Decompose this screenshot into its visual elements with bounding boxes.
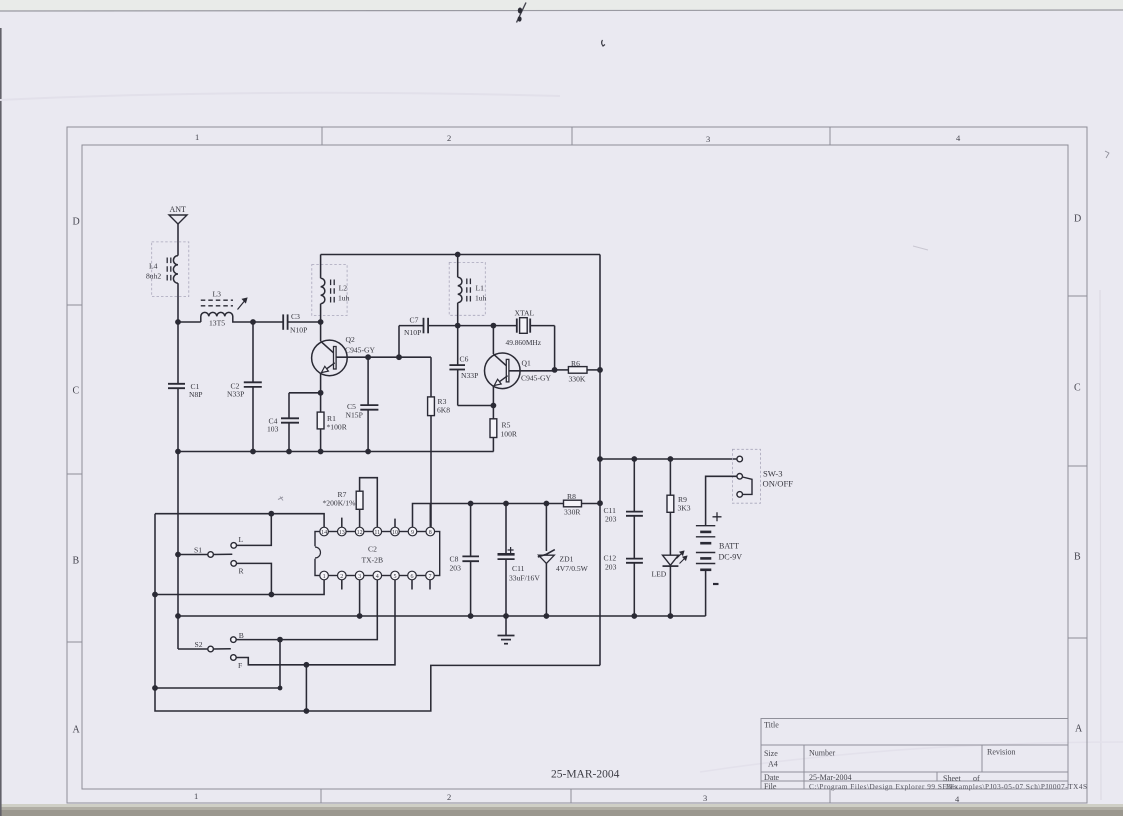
- svg-text:330K: 330K: [569, 375, 586, 384]
- wire: pin8 connection via R3 column (R3 line continues, crossing): [429, 504, 431, 528]
- wire: top rail L2 to right rail: [321, 254, 600, 256]
- svg-text:R5: R5: [502, 421, 511, 430]
- svg-text:S1: S1: [194, 546, 202, 555]
- svg-text:12: 12: [357, 530, 363, 536]
- capacitor C11 electrolytic 33uF: [498, 504, 541, 617]
- inductor L1: [449, 255, 486, 326]
- node: Q2 emitter junction: [318, 390, 324, 396]
- diode LED: [652, 551, 687, 616]
- svg-text:L1: L1: [476, 284, 485, 293]
- svg-text:N15P: N15P: [346, 411, 363, 420]
- svg-text:L: L: [239, 535, 244, 544]
- wire: upper ground rail: [178, 451, 494, 453]
- svg-text:*100R: *100R: [327, 423, 348, 432]
- node: pin14 net/L branch: [268, 511, 274, 517]
- svg-text:N33P: N33P: [227, 390, 244, 399]
- svg-text:49.860MHz: 49.860MHz: [506, 338, 542, 347]
- node: line A/R wire: [152, 592, 158, 598]
- sheet inner border: [82, 145, 1068, 789]
- node: B branch junction: [277, 637, 283, 643]
- pin 13 stub: [341, 518, 343, 528]
- capacitor C11: [604, 459, 643, 558]
- wire: B branch down to bottom link: [155, 640, 280, 688]
- node: rail/C8: [468, 613, 474, 619]
- svg-text:25-Mar-2004: 25-Mar-2004: [809, 773, 852, 782]
- svg-text:14: 14: [321, 530, 327, 536]
- svg-text:C8: C8: [450, 555, 459, 564]
- inductor L4: [146, 242, 189, 297]
- svg-text:C3: C3: [291, 312, 300, 321]
- pin 6 stub: [411, 580, 413, 590]
- faint mark right margin: [1105, 151, 1109, 158]
- svg-text:of: of: [973, 774, 980, 783]
- faint crease top left: [0, 93, 560, 100]
- svg-text:N33P: N33P: [461, 371, 478, 380]
- svg-text:ZD1: ZD1: [560, 555, 574, 564]
- svg-text:C7: C7: [410, 316, 419, 325]
- node: rail/LED: [668, 613, 674, 619]
- svg-text:BATT: BATT: [719, 542, 739, 551]
- node: net/C11 electrolytic: [503, 501, 509, 507]
- svg-text:Bes: Bes: [946, 783, 957, 791]
- node: rail/ZD1: [544, 613, 550, 619]
- right zone tick C-B: [1068, 465, 1087, 467]
- svg-text:33uF/16V: 33uF/16V: [509, 574, 540, 583]
- wire: bottom rail: [178, 615, 706, 617]
- svg-text:TX-2B: TX-2B: [362, 556, 384, 565]
- faint scratch mid right: [913, 246, 928, 250]
- svg-text:F: F: [238, 661, 242, 670]
- node: rail/power branch: [597, 456, 603, 462]
- svg-text:3K3: 3K3: [678, 504, 691, 513]
- pin 2 stub: [341, 580, 343, 590]
- node: B link corner dot: [278, 686, 283, 691]
- svg-text:R6: R6: [571, 359, 580, 368]
- svg-text:25-MAR-2004: 25-MAR-2004: [551, 769, 620, 781]
- svg-text:SW-3: SW-3: [763, 468, 783, 478]
- svg-text:N8P: N8P: [189, 390, 203, 399]
- node: rail/R8: [597, 500, 603, 506]
- svg-text:1: 1: [194, 791, 198, 801]
- wire: S2 B contact to pin4: [236, 580, 377, 640]
- pin 7 stub: [429, 580, 431, 590]
- capacitor C2: [227, 322, 262, 452]
- node: rail/C11 electrolytic: [503, 613, 509, 619]
- wire: feed to S2 pivot: [178, 648, 208, 650]
- svg-text:C12: C12: [604, 554, 617, 563]
- svg-text:330R: 330R: [564, 508, 581, 517]
- svg-text:A4: A4: [768, 760, 778, 769]
- svg-text:L2: L2: [339, 284, 348, 293]
- wire: right rail: [599, 255, 601, 666]
- svg-text:2: 2: [447, 792, 451, 802]
- node: rail/R1: [318, 449, 324, 455]
- svg-text:Sheet: Sheet: [943, 774, 962, 783]
- svg-text:1: 1: [195, 132, 199, 142]
- resistor R3: [428, 357, 451, 527]
- resistor R7: [323, 478, 378, 528]
- ground symbol: [498, 616, 515, 644]
- node: rail/R6: [597, 367, 603, 373]
- antenna ANT: [169, 205, 187, 322]
- title block box: [761, 719, 1068, 790]
- node: F branch junction: [304, 662, 310, 668]
- svg-text:3: 3: [706, 134, 710, 144]
- faint vertical crease right margin: [1100, 290, 1101, 800]
- svg-text:Revision: Revision: [987, 748, 1015, 757]
- switch S2: [195, 631, 244, 670]
- ink speck: [602, 40, 605, 46]
- left zone tick D-C: [67, 304, 82, 306]
- node: power/R9: [668, 456, 674, 462]
- svg-text:C945-GY: C945-GY: [345, 346, 375, 355]
- wire: Q1 base to R6: [509, 370, 555, 372]
- top zone tick 1-2: [321, 127, 323, 145]
- inductor L2: [312, 255, 350, 323]
- node: net/C8: [468, 501, 474, 507]
- left zone tick B-A: [67, 641, 82, 643]
- svg-text:Q1: Q1: [522, 359, 531, 368]
- svg-text:Size: Size: [764, 749, 778, 758]
- battery BATT DC-9V: [696, 512, 742, 616]
- svg-text:*200K/1%: *200K/1%: [323, 499, 357, 508]
- svg-text:203: 203: [605, 563, 617, 572]
- node: rail/C5: [365, 449, 371, 455]
- resistor R9: [667, 459, 691, 555]
- svg-text:11: 11: [374, 530, 380, 536]
- svg-text:203: 203: [605, 515, 617, 524]
- right zone tick D-C: [1068, 295, 1087, 297]
- svg-text:ON/OFF: ON/OFF: [763, 478, 794, 488]
- faint pencil mark near S1 wiring: [278, 497, 283, 501]
- bottom scan edge band: [0, 805, 1123, 816]
- resistor R8: [546, 492, 600, 517]
- svg-text:103: 103: [267, 425, 279, 434]
- node: C3/L2/Q2 junction: [318, 319, 324, 325]
- switch SW-3 ON/OFF: [732, 449, 793, 503]
- svg-text:6K8: 6K8: [437, 406, 450, 415]
- svg-text:1: 1: [323, 574, 326, 580]
- svg-text:C6: C6: [460, 355, 469, 364]
- node: Q1 emitter/C6 junction: [491, 403, 497, 409]
- node: pin1 net/R branch: [269, 592, 275, 598]
- capacitor C5: [346, 357, 379, 451]
- bottom zone tick 2-3: [570, 789, 572, 803]
- node: net/ZD1/R8: [544, 501, 550, 507]
- capacitor C8: [450, 504, 480, 617]
- bottom zone tick 1-2: [320, 789, 322, 803]
- svg-text:2: 2: [340, 574, 343, 580]
- wire: SW-3 to battery: [706, 476, 737, 525]
- svg-text:N10P: N10P: [404, 328, 421, 337]
- wire: left vertical line A with bottom run: [155, 514, 600, 711]
- node: L3/C3 junction: [250, 319, 256, 325]
- svg-text:DC-9V: DC-9V: [719, 553, 743, 562]
- svg-text:4: 4: [376, 574, 379, 580]
- svg-text:10: 10: [392, 530, 398, 536]
- capacitor C3: [253, 312, 321, 335]
- svg-text:S2: S2: [195, 640, 203, 649]
- wire: pin9/pin8 top net to R8: [413, 504, 547, 528]
- svg-text:C11: C11: [512, 564, 525, 573]
- transistor Q1 C945-GY: [485, 326, 552, 406]
- node: bottom link on line A: [152, 685, 158, 691]
- node: base/C7 junction: [396, 354, 402, 360]
- svg-text:100R: 100R: [501, 430, 518, 439]
- capacitor C12: [604, 554, 643, 617]
- node: rail/C2: [250, 449, 256, 455]
- svg-text:3: 3: [358, 574, 361, 580]
- pen scribble top edge: [517, 3, 527, 23]
- svg-text:L3: L3: [213, 290, 222, 299]
- wire: Q2 base: [336, 356, 431, 358]
- node: base/C5 junction: [365, 354, 371, 360]
- node: rail/C1: [175, 449, 181, 455]
- crystal XTAL 49.860MHz: [506, 309, 555, 370]
- svg-text:Date: Date: [764, 773, 780, 782]
- svg-text:13: 13: [339, 530, 345, 536]
- svg-text:A: A: [73, 725, 81, 736]
- wire: L1 node to XTAL node: [458, 325, 517, 327]
- left scan edge: [0, 28, 2, 816]
- switch S1: [178, 535, 245, 576]
- node: F branch/bottom wire: [304, 708, 310, 714]
- wire: power rail to SW-3: [600, 458, 737, 460]
- svg-text:8uh2: 8uh2: [146, 272, 161, 281]
- svg-text:XTAL: XTAL: [515, 309, 535, 318]
- IC C2 TX-2B: [315, 527, 440, 580]
- right zone tick B-A: [1068, 637, 1087, 639]
- svg-text:C: C: [1074, 383, 1081, 394]
- node: bottom rail/feed junction: [175, 613, 181, 619]
- svg-text:2: 2: [447, 133, 451, 143]
- pin 3 stub to bottom rail: [359, 580, 361, 616]
- svg-text:203: 203: [450, 564, 462, 573]
- wire: S2 F contact to pin5: [236, 580, 395, 665]
- capacitor C7: [399, 316, 458, 358]
- node: rail/C12: [631, 613, 637, 619]
- node: rail/pin3: [357, 613, 363, 619]
- svg-text:ANT: ANT: [170, 205, 187, 214]
- svg-text:Title: Title: [764, 721, 779, 730]
- zener diode ZD1: [538, 504, 589, 617]
- capacitor C1: [168, 322, 203, 452]
- svg-text:A: A: [1075, 724, 1083, 735]
- svg-text:B: B: [1074, 552, 1081, 563]
- svg-text:L4: L4: [149, 262, 158, 271]
- node: L1/C7/C6 junction: [455, 323, 461, 329]
- svg-text:C2: C2: [368, 545, 377, 554]
- svg-text:6: 6: [411, 574, 414, 580]
- resistor R1: [317, 393, 347, 452]
- node: antenna junction: [175, 319, 181, 325]
- wire: pin1 net horizontal: [155, 580, 324, 595]
- node: rail/C4: [286, 449, 292, 455]
- wire: F branch down to bottom wire: [305, 665, 307, 711]
- bottom zone tick 3-4: [829, 789, 831, 803]
- svg-text:R8: R8: [567, 492, 576, 501]
- svg-text:LED: LED: [652, 570, 667, 579]
- svg-text:D: D: [1074, 214, 1081, 225]
- svg-text:8: 8: [429, 530, 432, 536]
- svg-text:D: D: [73, 217, 80, 228]
- svg-text:File: File: [764, 782, 777, 791]
- svg-text:Q2: Q2: [346, 335, 355, 344]
- svg-text:13T5: 13T5: [209, 319, 225, 328]
- transistor Q2 C945-GY: [312, 322, 376, 393]
- wire: S1 L contact to pin14 net: [237, 514, 272, 546]
- inductor L3 (adjustable): [178, 290, 253, 328]
- pin 10 stub: [394, 519, 396, 528]
- top zone tick 2-3: [571, 127, 573, 145]
- svg-text:1uh: 1uh: [338, 293, 350, 302]
- wire: pin14 net horizontal: [155, 514, 324, 528]
- wire: C1 column down to S-switch area: [177, 452, 179, 650]
- svg-text:C945-GY: C945-GY: [521, 374, 551, 383]
- svg-text:5: 5: [394, 574, 397, 580]
- capacitor C6: [449, 326, 493, 406]
- svg-text:4V7/0.5W: 4V7/0.5W: [556, 564, 589, 573]
- svg-text:N10P: N10P: [290, 326, 307, 335]
- resistor R6: [555, 359, 600, 384]
- node: S1 feed junction: [175, 552, 181, 558]
- wire: S1 R contact to pin1 net: [237, 563, 272, 594]
- svg-text:B: B: [73, 556, 80, 567]
- capacitor C4: [267, 393, 321, 452]
- faint crease bottom right: [700, 742, 1123, 772]
- svg-text:1uh: 1uh: [475, 293, 487, 302]
- svg-text:C: C: [73, 386, 80, 397]
- node: top rail/L1: [455, 252, 461, 258]
- svg-text:9: 9: [411, 530, 414, 536]
- node: Q1 collector junction: [491, 323, 497, 329]
- resistor R5: [490, 406, 518, 452]
- node: XTAL/R6 junction: [552, 367, 558, 373]
- svg-text:7: 7: [429, 574, 432, 580]
- left zone tick C-B: [67, 473, 82, 475]
- sheet outer border: [67, 127, 1087, 803]
- svg-text:B: B: [239, 631, 244, 640]
- node: power/C11: [631, 456, 637, 462]
- svg-text:3: 3: [703, 793, 707, 803]
- top zone tick 3-4: [829, 127, 831, 145]
- svg-text:Number: Number: [809, 749, 836, 758]
